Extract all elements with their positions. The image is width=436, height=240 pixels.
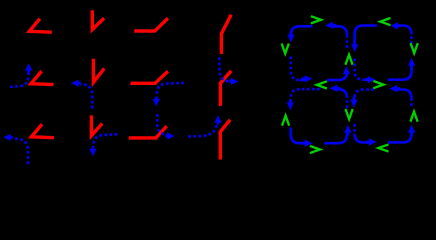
- red bend row2 col4: [220, 71, 231, 106]
- red corner row2 col2: [93, 59, 104, 83]
- green arrow down at left edge of TL loop: [282, 45, 288, 54]
- loop BL arc top-to-left: [287, 89, 320, 110]
- blue arrow E-to-S row2 col3: [153, 83, 184, 106]
- loop TR arc left-to-bottom: [355, 59, 376, 84]
- blue arrow N-to-E row2 col4: [219, 58, 238, 86]
- green arrow left at bottom edge of BR loop: [378, 145, 387, 151]
- loop TL arc bottom-to-right: [327, 66, 350, 80]
- green arrow left at top edge of TR loop: [380, 18, 389, 24]
- loop BL arc bottom-to-right: [324, 125, 351, 143]
- green arrow up between TL and TR loops: [346, 55, 352, 64]
- loop BR arc left-to-bottom: [355, 124, 377, 146]
- red bend row2 col3: [131, 71, 169, 83]
- loop TR arc bottom-to-right: [388, 58, 415, 80]
- loop BL arc right-to-top: [329, 85, 347, 108]
- loop BR arc right-to-top: [389, 85, 411, 106]
- loop TL arc top-to-left: [287, 26, 312, 42]
- red corner row1 col2: [92, 10, 104, 29]
- blue arrow S-to-W row3 col1: [3, 134, 28, 164]
- red corner row3 col2: [91, 115, 102, 135]
- blue arrow E-to-S row3 col2: [89, 134, 117, 156]
- red corner row3 col1: [31, 124, 54, 138]
- loop BR arc top-to-left: [350, 90, 374, 108]
- green arrow down at right edge of TR loop: [411, 44, 417, 53]
- loop TL arc right-to-top: [325, 22, 347, 48]
- red bend row3 col3: [129, 126, 167, 138]
- red corner row2 col1: [31, 71, 54, 85]
- loop TR arc top-to-left: [351, 26, 377, 53]
- loop BL arc left-to-bottom: [291, 128, 313, 147]
- loop TR arc right-to-top: [390, 22, 411, 44]
- green arrow right between TR and BR loops: [375, 81, 384, 87]
- blue arrow N-to-E row3 col3: [157, 114, 174, 140]
- red bend row1 col3: [134, 18, 168, 31]
- green arrow up at right edge of BR loop: [411, 112, 417, 121]
- blue arrow W-to-N row3 col4: [188, 115, 221, 136]
- blue arrow S-to-W row2 col2: [71, 80, 92, 109]
- green arrow right at top edge of TL loop: [312, 17, 321, 23]
- green arrow right at bottom edge of BL loop: [311, 146, 320, 152]
- green arrow up at left edge of BL loop: [282, 116, 288, 125]
- loop TL arc left-to-bottom: [291, 57, 313, 83]
- green arrow down between BL and BR loops: [346, 110, 352, 119]
- blue arrow W-to-N row2 col1: [10, 63, 32, 87]
- loop BR arc bottom-to-right: [388, 125, 415, 142]
- red bend row3 col4: [220, 120, 230, 160]
- red corner NW-in row1 col1: [29, 19, 52, 33]
- green arrow left between TL and BL loops: [317, 82, 326, 88]
- red bend row1 col4: [221, 15, 231, 54]
